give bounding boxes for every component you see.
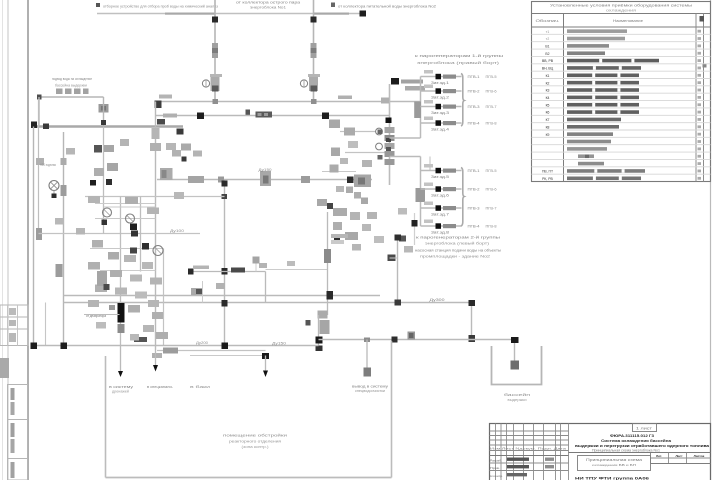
svg-text:в спецканали-: в спецканали- — [147, 385, 173, 389]
dark tag above collector — [134, 337, 147, 342]
bottom collector y=345.5 — [34, 345, 319, 347]
svg-text:1 лист: 1 лист — [636, 427, 653, 431]
legend row line — [532, 78, 711, 80]
faint stub x=202.5 — [202, 281, 204, 303]
svg-text:Принципиальная схема энергобло: Принципиальная схема энергоблока No1 — [592, 448, 660, 452]
outlet stub 1 — [120, 346, 122, 374]
svg-text:к парогенераторам 2-й группы: к парогенераторам 2-й группы — [416, 235, 500, 240]
thick distribution line y=126.5 — [34, 125, 184, 128]
branch line y=196.5 — [85, 196, 225, 198]
corner junction — [155, 101, 162, 109]
svg-text:К4: К4 — [546, 96, 550, 100]
svg-text:т2: т2 — [546, 37, 550, 41]
left riser x=33.5 — [33, 127, 35, 346]
left riser x=38.5 — [38, 99, 40, 234]
link y=138 to trunk — [390, 137, 421, 139]
transfer line y=271.5 — [191, 271, 266, 273]
vertical text strips in margin — [11, 388, 15, 400]
left riser x=45.5 — [45, 303, 47, 346]
svg-text:отборное устройство для отбора: отборное устройство для отбора проб воды… — [103, 4, 218, 9]
legend row line — [532, 33, 711, 35]
legend row line — [532, 85, 711, 87]
drawing frame left border — [27, 0, 29, 480]
supply pipe right drop — [103, 97, 105, 127]
branch trunk upper x=420.5 — [420, 77, 422, 139]
drop x=265.5 — [265, 272, 267, 303]
collector y=350.5 — [157, 350, 266, 352]
weld tick A — [212, 17, 218, 23]
box above line — [160, 168, 173, 180]
short line y=233.5 — [39, 233, 201, 235]
svg-text:Ду300: Ду300 — [430, 298, 445, 302]
hall wall right — [391, 341, 393, 478]
svg-text:ПГВ-8: ПГВ-8 — [486, 122, 497, 126]
exchanger link y=171.5 — [322, 171, 356, 173]
svg-text:В1: В1 — [545, 44, 549, 48]
standpipe x=389.5 — [389, 84, 391, 185]
SG branch valve — [436, 120, 442, 126]
header pipe line y=13.5 — [97, 13, 363, 15]
valve on upper trunk — [414, 102, 421, 119]
svg-text:охлаждения БВ и БП: охлаждения БВ и БП — [592, 463, 636, 467]
legend row line — [532, 129, 711, 131]
svg-text:насосная станция подачи воды н: насосная станция подачи воды на объекты — [415, 249, 501, 253]
legend column lines — [563, 14, 565, 182]
svg-text:Наименование: Наименование — [613, 19, 643, 23]
tag above header — [338, 96, 352, 100]
svg-text:спецводоочистки: спецводоочистки — [355, 389, 385, 393]
svg-text:бассейн: бассейн — [504, 393, 530, 397]
svg-text:энергоблока (левый борт): энергоблока (левый борт) — [425, 242, 489, 246]
legend row line — [532, 92, 711, 94]
faint line y=269.5 — [266, 269, 328, 271]
trunk valve — [416, 188, 426, 202]
svg-text:Разраб.: Разраб. — [490, 459, 502, 463]
svg-text:3ат.зд.6: 3ат.зд.6 — [431, 194, 449, 198]
valve pair above collector — [408, 332, 416, 340]
legend row line — [532, 166, 711, 168]
cluster link y=248.5 — [90, 248, 164, 250]
SG branch line y=170.5 — [421, 170, 462, 172]
SG branch valve — [436, 88, 442, 94]
svg-text:К9: К9 — [546, 133, 550, 137]
dark valve at crossing — [327, 291, 334, 300]
tall fitting in pump cluster — [97, 271, 107, 286]
title block revision rows — [490, 430, 569, 432]
legend row 18 — [578, 154, 594, 158]
valve dark on line — [347, 177, 354, 184]
top-right note text — [331, 3, 335, 8]
outlet stub 2 — [155, 351, 157, 368]
basin inlet pipe — [514, 340, 516, 364]
drain instrument — [246, 110, 251, 116]
svg-text:ПГВ-5: ПГВ-5 — [486, 75, 497, 79]
SG branch valve — [436, 168, 442, 174]
SG branch line y=189 — [421, 188, 462, 190]
svg-text:(зона контр.): (зона контр.) — [242, 445, 269, 449]
svg-text:3ат.зд.2: 3ат.зд.2 — [431, 96, 449, 100]
cluster small boxes — [88, 196, 100, 203]
svg-text:энергоблока (правый борт): энергоблока (правый борт) — [417, 61, 500, 65]
svg-text:ПВ, ПТ: ПВ, ПТ — [542, 170, 553, 174]
svg-text:подвод воды на охлаждение: подвод воды на охлаждение — [52, 77, 92, 81]
drop pipe x=327.5 upper — [327, 212, 329, 315]
svg-text:ВН, ВЦ: ВН, ВЦ — [542, 67, 554, 71]
svg-text:НИ ТПУ ФТИ группа 0А06: НИ ТПУ ФТИ группа 0А06 — [575, 476, 650, 480]
legend row line — [532, 114, 711, 116]
svg-text:3ат.зд.3: 3ат.зд.3 — [431, 111, 449, 115]
svg-text:ПГВ-8: ПГВ-8 — [486, 225, 497, 229]
legend row line — [532, 55, 711, 57]
drop line x=224.5 — [224, 180, 226, 346]
long line y=295.5 — [64, 295, 381, 297]
svg-text:к парогенераторам 1-й группы: к парогенераторам 1-й группы — [415, 53, 503, 58]
legend row line — [532, 122, 711, 124]
svg-text:в баки: в баки — [190, 385, 210, 389]
valve A — [212, 43, 218, 58]
svg-text:К8: К8 — [546, 125, 550, 129]
SG branch line y=76.5 — [421, 76, 462, 78]
SG branch valve — [436, 186, 442, 192]
pump riser x=140.5 — [140, 197, 142, 272]
outlet stub 3 — [265, 356, 267, 373]
svg-text:ПГВ-6: ПГВ-6 — [486, 188, 497, 192]
cluster link y=270.5 — [100, 270, 156, 272]
supply pipe top — [39, 96, 104, 98]
svg-text:ПГВ-2: ПГВ-2 — [468, 90, 480, 94]
fittings near vessel — [191, 288, 203, 295]
svg-text:ФЮРА.311115.012 Г3: ФЮРА.311115.012 Г3 — [610, 433, 655, 438]
svg-text:т1: т1 — [546, 30, 550, 34]
svg-text:от коллектора острого пара: от коллектора острого пара — [236, 0, 301, 5]
feed riser pipe B — [313, 0, 315, 102]
drop line x=155.5 — [155, 102, 157, 351]
svg-text:РК, РВ: РК, РВ — [542, 177, 553, 181]
legend row line — [532, 41, 711, 43]
small equipment boxes — [56, 89, 63, 95]
svg-text:ПГВ-3: ПГВ-3 — [468, 105, 480, 109]
brace lower group — [461, 168, 464, 227]
pressure gauge P — [253, 257, 260, 264]
center org box — [578, 456, 651, 471]
svg-text:Система охлаждения бассейна: Система охлаждения бассейна — [601, 439, 672, 443]
valve B — [311, 43, 317, 58]
svg-text:помещение обстройки: помещение обстройки — [223, 434, 287, 438]
valve left of riser x=63.5 — [56, 264, 63, 277]
svg-text:К6: К6 — [546, 111, 550, 115]
svg-text:Листов: Листов — [694, 454, 705, 458]
svg-text:ПГВ-1: ПГВ-1 — [468, 169, 480, 173]
extra fittings left cluster mid — [66, 148, 75, 155]
legend row line — [532, 158, 711, 160]
doc number cell — [633, 424, 657, 432]
extra fittings right cluster — [348, 141, 358, 148]
svg-text:Н2О подпитки: Н2О подпитки — [40, 163, 56, 167]
svg-text:3ат.зд.5: 3ат.зд.5 — [431, 175, 449, 179]
cluster above corner — [318, 311, 328, 319]
stub x=430 — [429, 157, 431, 171]
page frame left outer edge — [2, 0, 4, 480]
link y=156.5 to trunk — [390, 156, 421, 158]
valve on collector — [222, 343, 229, 350]
margin stamp block lower — [8, 385, 28, 480]
heater black vessel — [118, 303, 125, 323]
standpipe x=414.5 — [414, 213, 416, 245]
svg-text:ПГВ-7: ПГВ-7 — [486, 105, 497, 109]
brace upper group — [461, 74, 464, 127]
svg-text:Установленные условия приёмки: Установленные условия приёмки оборудован… — [550, 4, 693, 8]
svg-text:К7: К7 — [546, 118, 550, 122]
standpipe fittings — [385, 127, 395, 133]
legend row line — [532, 70, 711, 72]
svg-text:дренажей: дренажей — [112, 390, 129, 394]
valve on drop — [324, 249, 331, 263]
valve cross on line — [260, 171, 271, 186]
margin stamp block upper — [0, 305, 28, 346]
legend table outer frame — [532, 2, 711, 182]
SG branch valve — [436, 74, 442, 80]
long line y=302.5 — [64, 302, 472, 304]
svg-text:ПГВ-5: ПГВ-5 — [486, 169, 497, 173]
title block revision columns — [495, 424, 497, 480]
supply pipe left drop — [38, 97, 40, 127]
svg-text:вывод в систему: вывод в систему — [352, 385, 388, 389]
legend row line — [532, 48, 711, 50]
svg-text:Обознач.: Обознач. — [536, 19, 560, 23]
svg-text:в систему: в систему — [109, 385, 133, 389]
svg-text:реакторного отделения: реакторного отделения — [229, 440, 281, 444]
basin walls — [492, 346, 542, 385]
lit list cells — [569, 452, 711, 454]
instrument body B — [309, 76, 318, 91]
pump riser x=163.5 — [163, 249, 165, 346]
legend header row line — [532, 13, 711, 15]
svg-text:Изм Лист Nдокум. Подп. Дата: Изм Лист Nдокум. Подп. Дата — [490, 447, 567, 451]
svg-text:ПГВ-1: ПГВ-1 — [468, 75, 480, 79]
downcomer x=397.5 — [397, 237, 399, 303]
junction blob — [395, 300, 402, 306]
legend row line — [532, 107, 711, 109]
page frame left inner edge — [7, 0, 9, 480]
svg-text:К5: К5 — [546, 103, 550, 107]
svg-text:Лист: Лист — [675, 454, 683, 458]
svg-text:ПГВ-2: ПГВ-2 — [468, 188, 480, 192]
outlet stub 4 with valve — [366, 340, 368, 373]
legend row line — [532, 63, 711, 65]
valve assembly — [99, 104, 109, 113]
instrument circle A — [202, 80, 209, 87]
svg-text:ПГВ-7: ПГВ-7 — [486, 207, 497, 211]
left riser x=63.5 — [63, 132, 65, 346]
svg-text:ПГВ-6: ПГВ-6 — [486, 90, 497, 94]
pump 3 — [153, 246, 163, 256]
SG branch line y=123 — [421, 122, 462, 124]
exchanger link y=152.5 — [345, 152, 390, 154]
instrument circle C2 — [376, 143, 383, 150]
pump 1 — [103, 208, 112, 217]
margin gray label box — [0, 358, 9, 378]
instrument circle B — [300, 80, 307, 87]
legend row line — [532, 100, 711, 102]
svg-text:ПГВ-4: ПГВ-4 — [468, 225, 480, 229]
SG branch valve — [436, 104, 442, 110]
svg-text:К1: К1 — [546, 74, 550, 78]
end cap valve — [360, 11, 367, 17]
SG branch valve — [436, 205, 442, 211]
cluster link y=207 — [104, 206, 156, 208]
mid cluster boxes — [333, 208, 347, 216]
legend row line — [532, 136, 711, 138]
SG branch line y=226 — [421, 225, 462, 227]
svg-text:от коллектора питательной воды: от коллектора питательной воды энергобло… — [338, 4, 437, 9]
svg-text:ПГВ-3: ПГВ-3 — [468, 207, 480, 211]
svg-text:К3: К3 — [546, 89, 550, 93]
pump riser x=120.5 — [120, 197, 122, 346]
exchanger boxes — [329, 120, 340, 129]
svg-text:Пров.: Пров. — [490, 466, 500, 470]
note text top-left — [96, 3, 100, 7]
svg-text:выдержки: выдержки — [508, 398, 527, 402]
svg-text:энергоблока No1: энергоблока No1 — [250, 6, 286, 10]
bottom collector y=339.5 — [319, 339, 515, 341]
cluster link y=218.5 — [95, 218, 156, 220]
svg-text:Ду150: Ду150 — [259, 168, 272, 172]
drop pipe x=318.5 lower — [318, 315, 320, 347]
valve on header — [197, 113, 204, 120]
svg-text:Лит.: Лит. — [656, 454, 662, 458]
drop x=471.5 — [471, 303, 473, 340]
valve on riser x=63.5 — [61, 185, 67, 196]
branch trunk lower x=420.5 — [420, 157, 422, 227]
fittings left of crossover — [172, 150, 181, 157]
instrument body A — [211, 76, 220, 91]
collector y=355.5 — [190, 355, 266, 357]
small label — [193, 266, 209, 270]
legend row 16 — [567, 140, 611, 144]
svg-text:Ду200: Ду200 — [196, 341, 208, 345]
legend row line — [532, 173, 711, 175]
svg-text:охлаждения: охлаждения — [606, 9, 636, 13]
svg-text:В2: В2 — [545, 52, 549, 56]
main header line y=101.5 — [156, 101, 421, 103]
SG branch line y=208 — [421, 207, 462, 209]
hose diagonal — [346, 187, 353, 194]
svg-text:Н.контр.: Н.контр. — [490, 474, 503, 478]
svg-text:3ат.зд.7: 3ат.зд.7 — [431, 213, 449, 217]
inlet black box at group 1 — [391, 78, 399, 85]
hall wall left — [105, 356, 107, 478]
exchanger link y=131.5 — [340, 131, 376, 133]
svg-text:ВВ, РВ: ВВ, РВ — [542, 59, 554, 63]
SG branch line y=106.5 — [421, 106, 462, 108]
pump 2 — [126, 214, 135, 223]
small box — [36, 158, 44, 165]
valve boxes cluster — [107, 163, 118, 171]
secondary header line y=115.5 — [156, 115, 390, 117]
svg-text:3ат.зд.1: 3ат.зд.1 — [431, 81, 449, 85]
cluster on line — [188, 176, 204, 183]
hall wall bottom — [106, 477, 392, 479]
svg-text:Ду100: Ду100 — [170, 229, 184, 233]
legend row line — [532, 151, 711, 153]
svg-text:К2: К2 — [546, 81, 550, 85]
junction x224 y302 — [222, 300, 228, 307]
legend row line — [532, 144, 711, 146]
svg-text:Принципиальная схема: Принципиальная схема — [586, 458, 642, 462]
instrument circle C1 — [376, 128, 383, 135]
valve on riser — [36, 228, 42, 240]
SG branch valve — [436, 223, 442, 229]
svg-text:Ду150: Ду150 — [272, 342, 286, 346]
label plate on header — [256, 112, 273, 118]
crossover line y=179.5 — [157, 179, 372, 181]
svg-text:3ат.зд.4: 3ат.зд.4 — [431, 128, 449, 132]
feed riser pipe A — [214, 0, 216, 102]
title block outer frame — [490, 424, 711, 480]
svg-text:выдержки и перегрузки отработа: выдержки и перегрузки отработавшего ядер… — [575, 444, 710, 448]
pump riser x=103.5 — [103, 127, 105, 234]
legend row 17 — [567, 147, 607, 151]
svg-text:ПГВ-4: ПГВ-4 — [468, 122, 480, 126]
svg-text:промплощадки - здание No2: промплощадки - здание No2 — [420, 255, 490, 259]
legend row 19 — [578, 162, 604, 166]
valve on header — [322, 113, 329, 120]
weld tick B — [311, 17, 317, 23]
pump circle with stem — [49, 181, 59, 191]
extra fittings left cluster low — [88, 300, 99, 307]
drawing frame right border — [710, 0, 712, 480]
svg-text:бассейна выдержки: бассейна выдержки — [55, 84, 87, 88]
SG branch line y=91 — [421, 90, 462, 92]
cluster link y=203.5 — [95, 203, 156, 205]
